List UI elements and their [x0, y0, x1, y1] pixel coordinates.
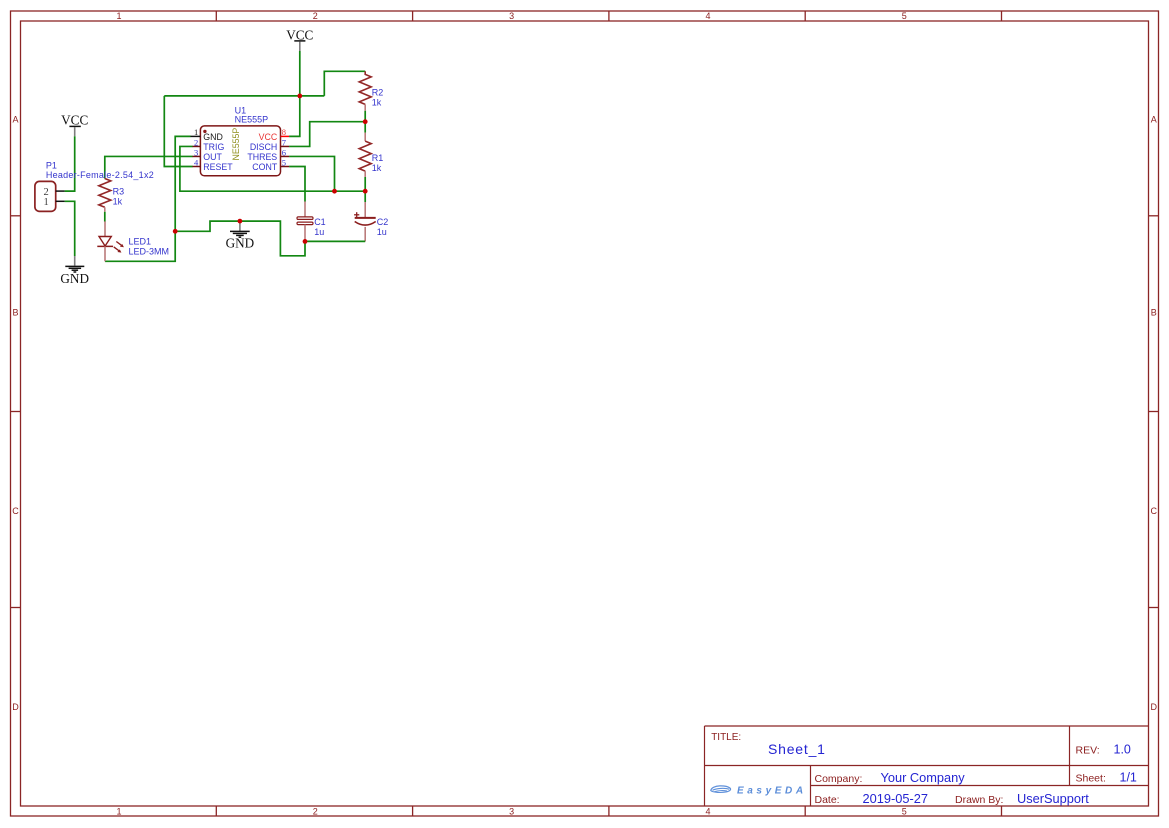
capacitor C2 (polarized) — [354, 202, 388, 241]
svg-text:VCC: VCC — [61, 113, 88, 128]
wire R3 to LED — [104, 212, 106, 222]
svg-text:D: D — [1151, 702, 1158, 712]
wire DISCH to divider — [289, 122, 365, 147]
pin 8 — [281, 135, 290, 137]
svg-text:TRIG: TRIG — [203, 142, 224, 152]
svg-text:C1: C1 — [314, 217, 326, 227]
pin 1 — [191, 135, 201, 137]
svg-text:Company:: Company: — [815, 773, 863, 785]
svg-text:EasyEDA: EasyEDA — [737, 786, 807, 797]
svg-text:Sheet:: Sheet: — [1076, 773, 1106, 785]
svg-text:GND: GND — [60, 271, 89, 286]
wire OUT to R3 — [105, 156, 193, 178]
pin 3 — [193, 155, 201, 157]
svg-text:R2: R2 — [372, 88, 384, 98]
junction dot R1/C2 — [363, 189, 368, 194]
svg-text:GND: GND — [203, 132, 223, 142]
junction dot VCC rail — [297, 94, 302, 99]
svg-text:C2: C2 — [377, 217, 389, 227]
svg-text:VCC: VCC — [286, 27, 313, 42]
svg-text:1k: 1k — [113, 196, 123, 206]
svg-text:1: 1 — [116, 11, 121, 21]
svg-text:2: 2 — [313, 807, 318, 817]
wire THRES down — [289, 156, 334, 191]
svg-text:GND: GND — [226, 236, 255, 251]
svg-text:B: B — [1151, 308, 1157, 318]
svg-text:5: 5 — [902, 807, 907, 817]
svg-text:Header-Female-2.54_1x2: Header-Female-2.54_1x2 — [46, 170, 154, 180]
net label VCC (top) — [286, 27, 313, 51]
wire RESET riser — [164, 96, 192, 167]
capacitor C1 — [297, 202, 326, 242]
svg-text:2: 2 — [194, 137, 198, 147]
svg-text:RESET: RESET — [203, 162, 233, 172]
junction dot THRES/TRIG — [332, 189, 337, 194]
pin 2 — [193, 145, 201, 147]
column numbers bottom — [116, 807, 906, 817]
svg-text:5: 5 — [902, 11, 907, 21]
svg-text:1: 1 — [194, 127, 198, 137]
svg-text:P1: P1 — [46, 160, 57, 170]
svg-text:UserSupport: UserSupport — [1017, 791, 1089, 806]
pin 7 — [281, 145, 290, 147]
svg-text:B: B — [12, 308, 18, 318]
op IC U1 NE555P — [191, 106, 290, 176]
svg-text:LED1: LED1 — [129, 237, 152, 247]
svg-text:2019-05-27: 2019-05-27 — [863, 791, 928, 806]
svg-text:3: 3 — [194, 147, 198, 157]
svg-text:1u: 1u — [377, 227, 387, 237]
wire to R2 top — [324, 71, 365, 96]
svg-text:THRES: THRES — [247, 152, 277, 162]
junction dot LED/GND net — [173, 229, 178, 234]
svg-text:3: 3 — [509, 807, 514, 817]
svg-text:Date:: Date: — [815, 794, 840, 806]
svg-text:Your Company: Your Company — [881, 770, 966, 785]
pin 6 — [281, 155, 290, 157]
svg-text:C: C — [1151, 506, 1158, 516]
svg-text:D: D — [12, 702, 19, 712]
pin 4 — [193, 166, 201, 168]
svg-text:4: 4 — [194, 157, 199, 167]
svg-text:OUT: OUT — [203, 152, 222, 162]
svg-text:1k: 1k — [372, 98, 382, 108]
wire VCC to P1 pin2 — [65, 136, 75, 191]
title block frame — [705, 726, 1149, 806]
resistor R2 — [359, 71, 383, 111]
svg-text:5: 5 — [282, 157, 286, 167]
svg-text:C: C — [12, 506, 19, 516]
svg-text:LED-3MM: LED-3MM — [129, 247, 170, 257]
svg-text:4: 4 — [705, 11, 710, 21]
svg-text:1u: 1u — [314, 227, 324, 237]
junction dot R2/R1 divider — [363, 119, 368, 124]
resistor R3 — [99, 179, 124, 212]
svg-text:6: 6 — [282, 147, 286, 157]
wire CONT to C1 — [289, 167, 305, 202]
wire VCC rail horizontal — [164, 95, 324, 97]
junction dot C1 bottom — [303, 239, 308, 244]
connector P1 — [35, 160, 154, 211]
junction dot GND symbol — [238, 219, 243, 224]
svg-text:NE555P: NE555P — [235, 114, 269, 124]
svg-text:VCC: VCC — [259, 132, 278, 142]
svg-text:CONT: CONT — [252, 162, 278, 172]
svg-text:NE555P: NE555P — [231, 128, 241, 161]
svg-text:Sheet_1: Sheet_1 — [768, 741, 826, 757]
wire pin1 GND net — [175, 136, 190, 231]
svg-text:1k: 1k — [372, 163, 382, 173]
svg-text:R3: R3 — [113, 186, 125, 196]
column numbers top — [116, 11, 906, 21]
svg-text:1/1: 1/1 — [1120, 771, 1137, 785]
svg-text:3: 3 — [509, 11, 514, 21]
svg-text:TITLE:: TITLE: — [711, 732, 741, 743]
svg-text:7: 7 — [282, 137, 286, 147]
wire R2 bottom to R1 top — [364, 111, 366, 133]
svg-text:R1: R1 — [372, 153, 384, 163]
wire ground bus — [175, 221, 305, 256]
svg-text:A: A — [12, 114, 18, 124]
svg-text:1.0: 1.0 — [1114, 743, 1131, 757]
svg-text:DISCH: DISCH — [250, 142, 277, 152]
row letters right — [1151, 114, 1158, 712]
net label VCC (left) — [61, 113, 88, 137]
row letters left — [12, 114, 19, 712]
resistor R1 — [359, 133, 383, 177]
wire P1 pin1 to GND — [65, 201, 75, 256]
svg-text:4: 4 — [705, 807, 710, 817]
svg-text:1: 1 — [116, 807, 121, 817]
ground symbol (middle) — [226, 221, 255, 251]
svg-text:A: A — [1151, 114, 1157, 124]
wire VCC vertical to pin8 — [289, 51, 300, 136]
svg-text:1: 1 — [43, 197, 48, 208]
svg-text:8: 8 — [282, 127, 286, 137]
wire R1 bottom — [364, 177, 366, 202]
pin 5 — [281, 166, 290, 168]
wire C1 bottom to C2 bottom — [305, 240, 365, 242]
wire LED return — [105, 231, 175, 261]
EasyEDA logo — [711, 786, 807, 797]
wire TRIG long — [180, 146, 365, 191]
svg-text:2: 2 — [313, 11, 318, 21]
ground symbol (left) — [60, 256, 89, 286]
svg-text:REV:: REV: — [1076, 745, 1100, 757]
LED LED1 — [97, 221, 169, 261]
svg-text:Drawn By:: Drawn By: — [955, 794, 1003, 806]
